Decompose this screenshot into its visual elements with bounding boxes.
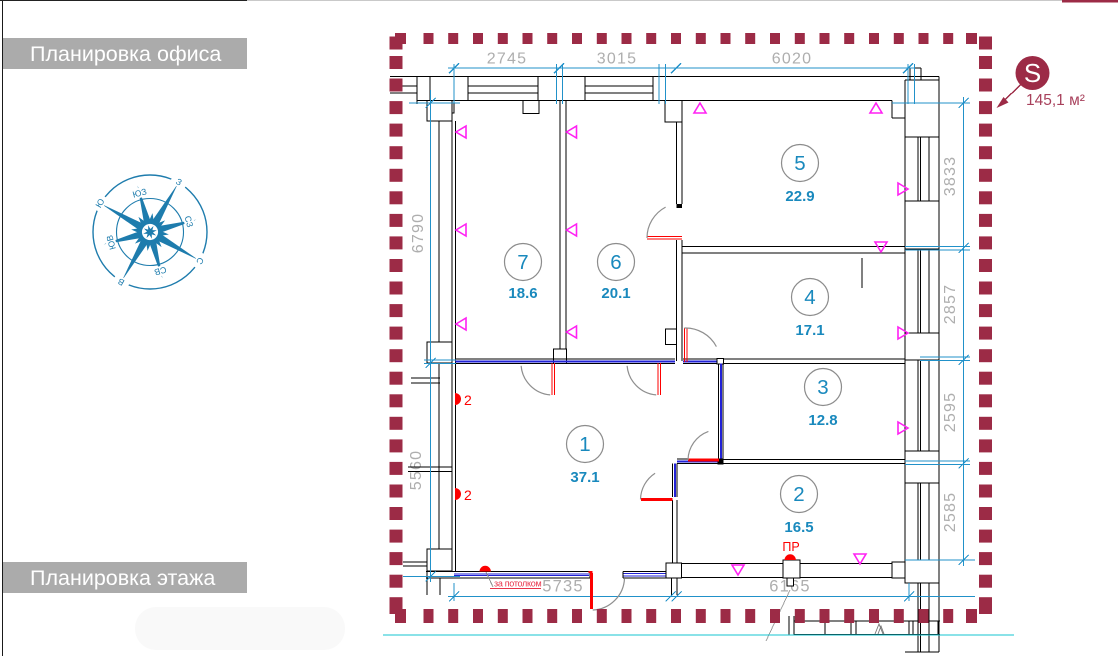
- svg-text:37.1: 37.1: [570, 469, 599, 486]
- svg-text:3015: 3015: [597, 51, 637, 68]
- door room6-5 leaf: [647, 236, 682, 238]
- room 2 label: [781, 476, 818, 537]
- door room7 arc: [521, 366, 550, 395]
- svg-text:ПР: ПР: [782, 540, 799, 554]
- svg-text:Планировка этажа: Планировка этажа: [30, 566, 215, 590]
- outer wall right with windows: [905, 137, 939, 652]
- vent triangle wall76 1: [567, 126, 577, 138]
- page top border line: [0, 0, 247, 2]
- room 1 label: [567, 426, 604, 487]
- room 6 label: [598, 244, 635, 303]
- room 5 label: [782, 145, 819, 206]
- partition room1 room3 and room3 room2: [673, 364, 906, 498]
- door room3 arc: [688, 431, 708, 460]
- svg-text:6: 6: [610, 251, 621, 274]
- vent triangle wall76 2: [567, 224, 577, 236]
- dashed maroon border: [390, 33, 993, 623]
- marker 2 upper: [455, 393, 461, 405]
- svg-text:17.1: 17.1: [795, 322, 824, 339]
- svg-text:3833: 3833: [942, 156, 959, 196]
- vent triangle right wall 3: [898, 422, 908, 434]
- door entrance leaf: [590, 573, 593, 609]
- page top light line: [247, 0, 1062, 2]
- page left border line: [2, 0, 4, 656]
- svg-text:за потолком: за потолком: [494, 579, 541, 589]
- wall between room6 and room5: [665, 101, 682, 362]
- svg-text:145,1 м²: 145,1 м²: [1026, 92, 1085, 109]
- door room6-5 arc: [647, 207, 666, 238]
- vent triangle right wall 1: [898, 183, 908, 195]
- svg-text:2585: 2585: [942, 492, 959, 532]
- svg-text:ЮЗ: ЮЗ: [131, 186, 147, 199]
- marker 2 lower: [455, 488, 461, 500]
- dome za potolkom: [480, 566, 491, 572]
- door entrance arc: [593, 578, 625, 610]
- svg-text:5735: 5735: [542, 578, 584, 596]
- door room6 arc: [627, 366, 656, 395]
- svg-text:18.6: 18.6: [508, 285, 537, 302]
- radiator line room4: [861, 258, 863, 288]
- wall between room7 and room6: [554, 101, 567, 364]
- main partition rooms67 over room1: [456, 359, 906, 365]
- leader za potolkom: [486, 572, 493, 587]
- svg-text:3: 3: [817, 376, 828, 399]
- door room2 arc: [641, 473, 656, 499]
- svg-text:16.5: 16.5: [784, 519, 813, 536]
- svg-text:20.1: 20.1: [601, 285, 630, 302]
- svg-text:2857: 2857: [942, 284, 959, 324]
- svg-text:12.8: 12.8: [808, 412, 837, 429]
- svg-text:1: 1: [579, 433, 590, 456]
- room 3 label: [805, 369, 842, 430]
- vent triangle partition54: [875, 242, 887, 252]
- svg-text:22.9: 22.9: [785, 188, 814, 205]
- door room4 leaf: [684, 328, 686, 362]
- svg-text:ЮВ: ЮВ: [104, 234, 118, 251]
- svg-text:6020: 6020: [772, 51, 812, 68]
- svg-text:6790: 6790: [410, 213, 427, 253]
- svg-text:2595: 2595: [942, 392, 959, 432]
- title banner office: [3, 38, 247, 69]
- svg-text:2: 2: [464, 487, 472, 503]
- wall between room5 and room4: [682, 246, 905, 248]
- svg-text:S: S: [1024, 58, 1041, 88]
- title banner floor: [3, 562, 247, 593]
- vent triangle left wall 2: [456, 224, 466, 236]
- door room7 leaf: [551, 363, 553, 395]
- compass rose: [64, 146, 236, 318]
- faint watermark blob: [135, 607, 345, 650]
- vent triangle right wall 2: [898, 327, 908, 339]
- dimension lines blue: [403, 63, 975, 601]
- outer wall bottom: [426, 560, 905, 595]
- outer wall left: [403, 101, 456, 596]
- page top-right maroon bar: [1062, 0, 1118, 3]
- vent triangle bottom 2: [854, 554, 866, 564]
- staircase below plan: [766, 590, 940, 641]
- vent triangle bottom 1: [732, 565, 744, 575]
- wall room1 room2 lower: [672, 500, 674, 563]
- svg-text:7: 7: [517, 251, 528, 274]
- S marker circle: [1016, 56, 1050, 90]
- door room4 arc: [684, 328, 716, 347]
- S marker arrow: [1002, 85, 1021, 103]
- svg-text:2: 2: [793, 483, 804, 506]
- vent triangle wall76 3: [567, 326, 577, 338]
- room 4 label: [792, 279, 829, 340]
- dome PR: [785, 554, 796, 560]
- svg-text:5560: 5560: [408, 450, 425, 490]
- svg-text:2: 2: [464, 392, 472, 408]
- door room2 leaf: [641, 498, 673, 501]
- svg-text:2745: 2745: [487, 51, 527, 68]
- svg-text:Планировка офиса: Планировка офиса: [30, 42, 221, 66]
- vent triangle left wall 3: [456, 318, 466, 330]
- door room6 leaf: [657, 363, 659, 395]
- cyan section line: [383, 634, 1014, 636]
- vent triangle top wall 2: [870, 103, 882, 113]
- room 7 label: [505, 244, 542, 303]
- outer wall top with windows: [390, 68, 939, 137]
- svg-text:5: 5: [794, 152, 805, 175]
- vent triangle top wall 1: [694, 103, 706, 113]
- vent triangle left wall 1: [456, 126, 466, 138]
- door room3 leaf: [688, 459, 719, 462]
- svg-text:4: 4: [804, 286, 815, 309]
